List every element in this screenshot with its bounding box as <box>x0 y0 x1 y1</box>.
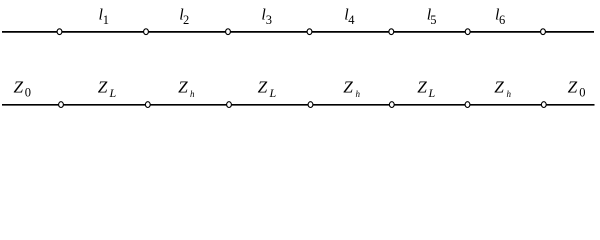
node: bottom junction 2 <box>145 102 150 108</box>
svg-text:h: h <box>356 89 361 99</box>
node: bottom junction 4 <box>308 102 313 108</box>
label ZL section 5 <box>417 77 435 100</box>
label Zh section 6 <box>494 77 511 99</box>
label Zh section 4 <box>343 77 360 99</box>
node: bottom junction 1 <box>59 102 64 108</box>
svg-text:1: 1 <box>103 13 109 27</box>
node: bottom junction 7 <box>541 102 546 108</box>
node: top junction 5 <box>389 29 394 35</box>
label l2 <box>179 7 189 28</box>
svg-text:Z: Z <box>417 77 427 96</box>
node: bottom junction 3 <box>227 102 232 108</box>
svg-text:Z: Z <box>14 77 24 96</box>
node: top junction 7 <box>541 29 546 35</box>
node: top junction 4 <box>307 29 312 35</box>
svg-text:4: 4 <box>348 13 355 27</box>
label l6 <box>495 7 505 28</box>
label l5 <box>427 7 437 28</box>
svg-text:6: 6 <box>499 13 505 27</box>
node: bottom junction 6 <box>465 102 470 108</box>
svg-text:2: 2 <box>183 13 189 27</box>
node: top junction 1 <box>57 29 62 35</box>
svg-text:h: h <box>190 89 195 99</box>
svg-text:L: L <box>109 86 117 100</box>
svg-text:L: L <box>428 86 436 100</box>
wire: bottom transmission line <box>2 104 595 106</box>
node: top junction 6 <box>465 29 470 35</box>
label Z0 input impedance <box>14 77 32 99</box>
svg-text:Z: Z <box>98 77 108 96</box>
svg-text:5: 5 <box>430 13 436 27</box>
svg-text:0: 0 <box>579 86 585 100</box>
label l4 <box>344 7 355 28</box>
node: bottom junction 5 <box>389 102 394 108</box>
label ZL section 3 <box>258 77 277 100</box>
svg-text:Z: Z <box>494 77 504 96</box>
wire: top transmission line <box>2 31 594 33</box>
label l1 <box>99 7 109 28</box>
label Z0 output impedance <box>568 77 586 99</box>
node: top junction 3 <box>226 29 231 35</box>
svg-text:L: L <box>269 86 277 100</box>
svg-text:0: 0 <box>25 86 31 100</box>
svg-text:3: 3 <box>266 13 272 27</box>
label ZL section 1 <box>98 77 117 100</box>
svg-text:Z: Z <box>258 77 268 96</box>
svg-text:Z: Z <box>568 77 578 96</box>
label Zh section 2 <box>178 77 195 99</box>
svg-text:Z: Z <box>178 77 188 96</box>
label l3 <box>261 7 272 28</box>
node: top junction 2 <box>144 29 149 35</box>
svg-text:Z: Z <box>343 77 353 96</box>
svg-text:h: h <box>507 89 512 99</box>
